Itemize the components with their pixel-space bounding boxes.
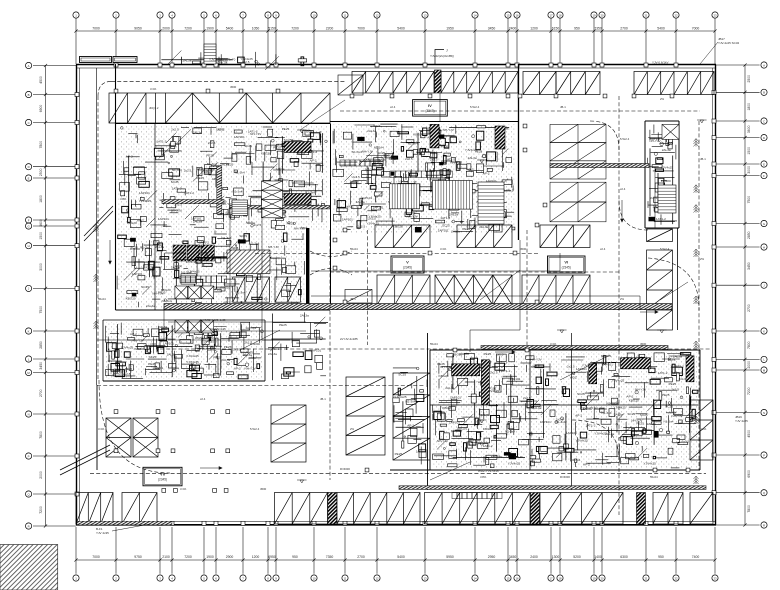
tray tag box A: [80, 57, 112, 63]
svg-text:7200: 7200: [747, 387, 751, 395]
leader note right: [735, 415, 748, 423]
svg-text:7000: 7000: [692, 26, 700, 30]
svg-text:2400: 2400: [509, 26, 517, 30]
svg-text:2700: 2700: [39, 389, 43, 397]
grid bubble right J: [761, 282, 767, 288]
elevator shaft A3: [201, 286, 213, 299]
wall bottom cluster left: [429, 350, 431, 470]
texture overlay left core upper: [117, 126, 328, 230]
centre equipment cluster: [333, 124, 515, 232]
panel box left core B: [284, 194, 311, 205]
parking stalls lower-left A: [106, 418, 131, 457]
svg-text:D: D: [28, 165, 30, 169]
svg-text:R: R: [28, 524, 30, 528]
elevator shaft right core: [662, 124, 679, 139]
svg-text:2850: 2850: [747, 231, 751, 239]
svg-text:19: 19: [592, 576, 596, 580]
grid bubble top 12: [374, 12, 380, 18]
grid line right G: [716, 223, 760, 225]
bottom equipment cluster: [432, 353, 698, 468]
tree symbol right corridor 4: [694, 249, 699, 257]
drive lane vertical x330: [329, 230, 331, 480]
wire run B: [311, 296, 640, 310]
horizontal tray left core: [162, 200, 224, 204]
grid bubble top 17: [548, 12, 554, 18]
cable tray short top-left: [230, 206, 330, 209]
bottom-left cluster strip: [393, 367, 427, 464]
svg-text:15: 15: [506, 576, 510, 580]
grid line top 22: [675, 18, 677, 64]
grid bubble right D: [761, 135, 767, 141]
svg-text:13: 13: [423, 13, 427, 17]
ramp slope lines left corridor: [60, 206, 113, 475]
elevator shaft B2: [188, 320, 200, 333]
grid line left H: [33, 245, 76, 247]
elevator shaft A1: [175, 286, 187, 299]
outer wall top: [76, 64, 716, 66]
lane arc cross B: [310, 269, 352, 276]
svg-text:AP-2: AP-2: [407, 424, 414, 428]
svg-text:6950: 6950: [268, 555, 276, 559]
grid line left N: [33, 413, 76, 415]
svg-text:55x24: 55x24: [650, 475, 658, 479]
svg-text:5400: 5400: [657, 26, 665, 30]
svg-text:5150: 5150: [268, 26, 276, 30]
svg-text:A: A: [763, 63, 765, 67]
stair left core B: [181, 274, 196, 284]
grid line left M: [33, 372, 76, 374]
stair centre block: [478, 182, 504, 224]
lane arc cross A: [310, 251, 352, 257]
svg-text:7500: 7500: [39, 306, 43, 314]
panel box centre A: [430, 124, 439, 147]
svg-text:5.5x2.4: 5.5x2.4: [620, 137, 630, 141]
parking stalls lower-centre: [271, 405, 306, 462]
grid bubble right F: [761, 173, 767, 179]
svg-text:10: 10: [312, 576, 316, 580]
svg-text:55x24: 55x24: [98, 297, 106, 301]
grid bubble bottom 4: [169, 575, 175, 581]
grid line top 13: [424, 18, 426, 64]
grid bubble bottom 6: [213, 575, 219, 581]
svg-text:4500: 4500: [640, 342, 647, 346]
left dimension line: [45, 66, 47, 527]
svg-text:4500: 4500: [520, 247, 527, 251]
svg-text:i=8%: i=8%: [480, 475, 487, 479]
svg-text:F: F: [28, 218, 30, 222]
parking stalls mid row2 C: [522, 275, 590, 305]
svg-text:7200: 7200: [39, 506, 43, 514]
column grid dots: [114, 89, 690, 492]
svg-text:2900: 2900: [226, 555, 234, 559]
grid line left L: [33, 358, 76, 360]
svg-text:22: 22: [674, 13, 678, 17]
svg-text:YJV4x25: YJV4x25: [661, 165, 674, 169]
grid bubble left N: [26, 411, 32, 417]
svg-text:E: E: [763, 162, 765, 166]
svg-text:B: B: [763, 91, 765, 95]
grid line right K: [716, 330, 760, 332]
grid bubble bottom 20: [599, 575, 605, 581]
drive arc right C: [648, 258, 699, 310]
svg-text:5400: 5400: [397, 26, 405, 30]
parking stalls top-right A: [556, 72, 600, 95]
svg-text:5400: 5400: [226, 26, 234, 30]
grid line bottom 2: [115, 527, 117, 574]
panel box centre B: [495, 126, 505, 149]
grid bubble bottom 5: [201, 575, 207, 581]
svg-text:950: 950: [292, 555, 298, 559]
outer wall left: [76, 65, 78, 526]
grid line right N: [716, 412, 760, 414]
grid bubble left M: [26, 369, 32, 375]
svg-text:21: 21: [644, 576, 648, 580]
svg-text:7000: 7000: [92, 555, 100, 559]
grid line right C: [716, 120, 760, 122]
panel box bottom cluster C: [481, 360, 489, 405]
feeder labels mid-left: [195, 318, 226, 340]
grid line bottom 8: [267, 527, 269, 574]
grid line top 4: [171, 18, 173, 64]
grid line top 16: [516, 18, 518, 64]
wall pilaster columns: [75, 63, 716, 525]
grid bubble top 11: [342, 12, 348, 18]
half stall mid: [345, 290, 372, 304]
svg-text:C: C: [763, 119, 765, 123]
svg-text:16: 16: [515, 13, 519, 17]
parking stalls bottom-left column: [393, 373, 430, 460]
svg-text:1200: 1200: [252, 555, 260, 559]
grid bubble bottom 18: [557, 575, 563, 581]
grid line left Q: [33, 493, 76, 495]
svg-text:9050: 9050: [134, 26, 142, 30]
shaft panel bottom row C: [637, 493, 646, 525]
svg-text:5400: 5400: [397, 555, 405, 559]
parking stalls bottom row D: [337, 493, 420, 525]
svg-text:2500: 2500: [39, 168, 43, 176]
wall centre-right vertical: [518, 64, 520, 240]
svg-text:13: 13: [423, 576, 427, 580]
parking stalls mid row1 B: [457, 225, 512, 248]
grid line bottom 6: [215, 527, 217, 574]
wall lower core right: [264, 320, 266, 381]
wire run C: [229, 207, 231, 303]
grid line left R: [33, 525, 76, 527]
svg-text:11: 11: [344, 576, 347, 580]
svg-text:KBG20: KBG20: [661, 179, 671, 183]
panel box bottom cluster B: [621, 358, 651, 369]
svg-text:7000: 7000: [357, 26, 365, 30]
drive lane arc top-left: [98, 81, 111, 96]
grid bubble top 21: [643, 12, 649, 18]
tree symbol right corridor 8: [694, 476, 699, 484]
grid bubble bottom 1: [73, 575, 79, 581]
svg-text:YJV 4x25: YJV 4x25: [735, 419, 748, 423]
grid line top 11: [344, 18, 346, 64]
svg-text:JB-1: JB-1: [560, 105, 566, 109]
svg-text:6300: 6300: [620, 555, 628, 559]
svg-text:K: K: [28, 329, 30, 333]
grid line left P: [33, 455, 76, 457]
tree symbol right corridor 2: [694, 185, 699, 193]
svg-text:2xYJV22-4x185+1x95: 2xYJV22-4x185+1x95: [200, 318, 226, 322]
svg-text:7200: 7200: [184, 26, 192, 30]
zone label box IV: [413, 100, 448, 117]
tree symbol right corridor 6: [694, 341, 699, 349]
svg-text:2950: 2950: [488, 555, 496, 559]
svg-text:22: 22: [674, 576, 678, 580]
svg-text:20: 20: [600, 13, 604, 17]
grid line right F: [716, 175, 760, 177]
left dimension numbers: [39, 76, 43, 514]
elevator shaft C2: [262, 190, 283, 199]
grid line top 7: [242, 18, 244, 64]
top dimension numbers: [92, 26, 699, 30]
grid bubble bottom 19: [591, 575, 597, 581]
legend hatched block bottom-left: [0, 545, 58, 590]
wire run F: [439, 93, 441, 121]
wall right core top: [645, 120, 679, 122]
feeder lines mid-left: [168, 322, 306, 340]
elevator shaft C1: [262, 181, 283, 190]
grid line bottom 15: [507, 527, 509, 574]
outer wall bottom: [76, 524, 716, 526]
stair left core A: [232, 200, 248, 216]
slope arrows: [109, 200, 658, 469]
svg-text:2000: 2000: [162, 26, 170, 30]
grid bubble top 15: [505, 12, 511, 18]
svg-text:5950: 5950: [446, 555, 454, 559]
grid bubble bottom 8: [265, 575, 271, 581]
left core equipment cluster upper: [119, 127, 327, 230]
grid bubble top 18: [557, 12, 563, 18]
shaft panel bottom row B: [531, 493, 540, 525]
svg-text:1400: 1400: [594, 555, 602, 559]
grid bubble left B: [26, 91, 32, 97]
drive arc bottom-left: [99, 380, 170, 473]
svg-text:17: 17: [549, 13, 553, 17]
svg-text:950: 950: [574, 26, 580, 30]
svg-text:1050: 1050: [252, 26, 260, 30]
grid bubble bottom 16: [514, 575, 520, 581]
svg-text:YJV 4x35: YJV 4x35: [96, 531, 109, 535]
svg-text:14: 14: [473, 576, 477, 580]
black wall stub centre-left: [306, 228, 309, 310]
wall left core bottom: [116, 309, 331, 311]
parking stalls lower-right corner: [690, 400, 713, 460]
wire run E: [470, 240, 520, 352]
svg-text:4500: 4500: [230, 85, 237, 89]
grid bubble left E: [26, 175, 32, 181]
grid line right J: [716, 284, 760, 286]
grid line bottom 20: [601, 527, 603, 574]
parking block right upper: [550, 124, 606, 179]
leader line bottom-left: [112, 524, 150, 531]
cable note top-right: [652, 61, 669, 65]
leader diagonal E: [660, 282, 688, 300]
grid line top 14: [474, 18, 476, 64]
parking block right lower: [550, 182, 606, 222]
drive lane top horizontal: [111, 80, 345, 82]
grid line top 6: [215, 18, 217, 64]
svg-text:(2345): (2345): [403, 266, 412, 270]
svg-text:R=6000: R=6000: [250, 342, 260, 346]
svg-text:3000: 3000: [39, 263, 43, 271]
grid line right H: [716, 246, 760, 248]
svg-text:4500: 4500: [260, 487, 267, 491]
wall right core right: [678, 121, 680, 228]
shaft panel top row: [435, 70, 442, 93]
wall centre block top: [330, 121, 518, 123]
grid line right Q: [716, 492, 760, 494]
svg-text:x2.4: x2.4: [390, 105, 396, 109]
svg-text:23: 23: [713, 13, 717, 17]
parking stall column right-mid B: [647, 250, 673, 330]
grid bubble right Q: [761, 490, 767, 496]
drive lane vertical x527: [526, 230, 528, 345]
wall bottom cluster top: [430, 349, 700, 351]
grid bubble left K: [26, 328, 32, 334]
svg-text:2AL3a: 2AL3a: [300, 313, 309, 317]
svg-text:12: 12: [375, 576, 379, 580]
svg-text:1900: 1900: [206, 26, 214, 30]
wire run H: [97, 307, 164, 340]
grid line left E: [33, 177, 76, 179]
svg-text:YJV22(2x(3x185)): YJV22(2x(3x185)): [430, 54, 454, 58]
drive lane vertical right: [698, 121, 700, 470]
outer wall right: [715, 65, 717, 526]
grid bubble left R: [26, 523, 32, 529]
grid bubble right H: [761, 244, 767, 250]
grid bubble left D: [26, 164, 32, 170]
panel box bottom cluster E: [686, 356, 694, 382]
leader diagonal D: [240, 330, 280, 350]
wall left core right side: [330, 124, 332, 311]
grid line right R: [716, 524, 760, 526]
grid bubble bottom 15: [505, 575, 511, 581]
svg-text:2700: 2700: [747, 304, 751, 312]
svg-text:55x24: 55x24: [430, 342, 438, 346]
svg-text:N1-3x4: N1-3x4: [406, 400, 416, 404]
svg-text:55x24: 55x24: [350, 247, 358, 251]
grid bubble right A: [761, 62, 767, 68]
panel schedule strip C: [180, 276, 227, 283]
grid line bottom 7: [242, 527, 244, 574]
zone label box VII: [143, 467, 182, 486]
scattered lane annotations: [98, 85, 707, 491]
parking stalls bottom row E: [425, 493, 531, 525]
drive lane vertical centre-right: [618, 96, 620, 515]
svg-text:2xYJV-4x185: 2xYJV-4x185: [340, 337, 358, 341]
svg-text:x2.4: x2.4: [620, 187, 626, 191]
leader diagonal C: [560, 355, 610, 380]
grid bubble bottom 23: [712, 575, 718, 581]
svg-text:2700: 2700: [357, 555, 365, 559]
grid bubble left C: [26, 119, 32, 125]
cable tray band cluster top: [481, 346, 668, 350]
wall left core top: [116, 123, 331, 125]
svg-text:YJV-0.6/1kV: YJV-0.6/1kV: [652, 61, 669, 65]
grid line bottom 1: [75, 527, 77, 574]
grid line bottom 21: [645, 527, 647, 574]
parking stalls lower-centre right: [346, 377, 385, 455]
wall bottom cluster mid horizontal: [430, 404, 700, 406]
grid line bottom 23: [714, 527, 716, 574]
parking stalls bottom row A: [76, 493, 113, 525]
grid line bottom 12: [376, 527, 378, 574]
grid line bottom 13: [424, 527, 426, 574]
parking stalls bottom row C: [275, 493, 328, 525]
svg-text:SC25: SC25: [398, 373, 406, 377]
right dimension line: [744, 65, 746, 525]
svg-text:1500: 1500: [39, 232, 43, 240]
svg-text:17: 17: [549, 576, 553, 580]
svg-text:18: 18: [558, 13, 562, 17]
elevator shaft C3: [262, 199, 283, 208]
drive lane left vertical: [97, 96, 99, 380]
parking stalls top-left row: [109, 93, 330, 123]
grid bubble right P: [761, 452, 767, 458]
grid line right A: [716, 64, 760, 66]
grid line bottom 17: [550, 527, 552, 574]
parking stalls bottom row F: [540, 493, 623, 525]
grid bubble top 22: [673, 12, 679, 18]
grid bubble left H: [26, 243, 32, 249]
grid bubble right M: [761, 367, 767, 373]
svg-text:P: P: [28, 454, 30, 458]
drive lane mid upper: [255, 253, 540, 255]
grid line top 19: [593, 18, 595, 64]
grid bubble right B: [761, 89, 767, 95]
svg-text:7800: 7800: [747, 341, 751, 349]
texture overlay bottom cluster: [432, 352, 698, 468]
svg-text:23: 23: [713, 576, 717, 580]
bottom dimension numbers: [92, 555, 699, 559]
grid bubble top 20: [599, 12, 605, 18]
drive lane bottom horizontal: [90, 472, 706, 474]
grid line top 23: [714, 18, 716, 64]
parking stalls mid row1 A: [375, 225, 430, 248]
cable tray band above bottom stalls: [399, 486, 706, 490]
stair right core: [658, 185, 676, 213]
grid bubble left A: [26, 62, 32, 68]
wall lower core top: [103, 319, 265, 321]
svg-text:10: 10: [312, 13, 316, 17]
tree symbol left corridor 3: [94, 321, 99, 329]
grid line left G: [33, 225, 76, 227]
svg-text:PE25: PE25: [395, 452, 403, 456]
svg-text:YJV22-4x120+1x70: YJV22-4x120+1x70: [209, 58, 236, 62]
tree symbol right corridor 3: [694, 205, 699, 213]
tray tag box B: [113, 57, 137, 63]
svg-text:2%: 2%: [350, 427, 355, 431]
svg-text:6900: 6900: [747, 470, 751, 478]
svg-text:1950: 1950: [446, 26, 454, 30]
wall left corridor mid: [96, 68, 98, 385]
zone label box V: [391, 256, 424, 273]
wire run D: [262, 207, 300, 340]
parking stalls mid row2 west B: [275, 277, 300, 302]
grid bubble top 1: [73, 12, 79, 18]
svg-text:H: H: [763, 245, 765, 249]
svg-text:6150: 6150: [552, 26, 560, 30]
svg-text:JB-1: JB-1: [320, 397, 326, 401]
grid bubble top 13: [422, 12, 428, 18]
top annotation strip: [161, 51, 306, 71]
grid bubble bottom 10: [311, 575, 317, 581]
svg-text:G: G: [28, 224, 30, 228]
cable tray band right upper: [550, 164, 649, 168]
